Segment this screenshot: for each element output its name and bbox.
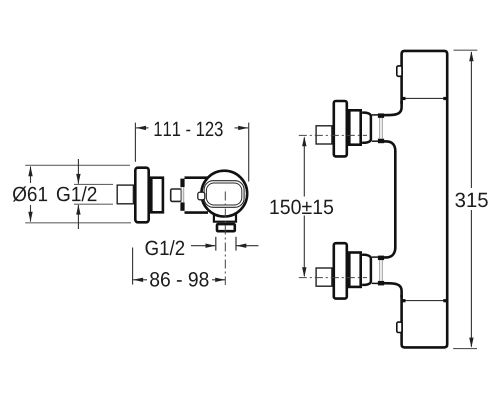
label 315 <box>455 193 487 208</box>
top nut caps <box>378 113 384 118</box>
dimension 150+-15 line and arrows <box>302 136 306 277</box>
dimension G1/2 supply extension lines <box>74 184 113 204</box>
label O61 <box>13 186 47 201</box>
dimension O61 arrows <box>28 166 32 222</box>
bottom nut caps <box>378 256 384 261</box>
wall flange O61 (side view) <box>135 168 148 223</box>
bottom handle notch <box>397 322 402 332</box>
dimension G1/2 outlet line, arrows and ticks <box>191 237 259 251</box>
handle knob circle (side view) <box>201 171 247 217</box>
dimension 111-123 extension lines <box>135 123 248 182</box>
dimension 315 line and arrows <box>469 51 473 347</box>
top union assembly <box>299 101 384 156</box>
dimension G1/2 supply arrows <box>76 159 80 229</box>
grip button tab (side view) <box>198 192 205 200</box>
label 150+-15 <box>270 200 333 215</box>
top handle notch <box>397 66 402 76</box>
supply stub G1/2 (side view) <box>117 185 133 204</box>
bottom supply stub <box>316 268 332 286</box>
bottom handle parting line with ticks <box>402 299 446 302</box>
bottom union assembly <box>299 243 384 298</box>
outlet centerline (side view) <box>224 192 226 286</box>
lever grip inner (side view) <box>206 183 241 205</box>
outlet nut G1/2 (side view) <box>217 224 235 231</box>
bottom wall flange <box>334 243 347 298</box>
dimension 315 extension lines <box>453 50 477 348</box>
bottom nut body <box>379 260 381 281</box>
bottom centerline <box>299 277 367 279</box>
body left edge between unions <box>381 141 395 257</box>
body outline with handles (front view) <box>402 51 448 348</box>
dimension 86-98 extension line <box>132 248 134 285</box>
label G1/2 supply <box>57 186 97 201</box>
top handle parting line with ticks <box>402 97 446 100</box>
junction ring caps (side view) <box>180 179 184 211</box>
dimension 111-123 line and arrows <box>136 126 248 130</box>
top wall flange <box>334 101 347 156</box>
label 111-123 <box>155 122 223 137</box>
body left edge curve from bottom union <box>381 283 402 297</box>
outlet neck (side view) <box>214 214 236 222</box>
body section A (side view) <box>151 178 163 213</box>
top adapter <box>349 110 360 144</box>
label 86-98 <box>150 272 208 287</box>
top cylinder lines <box>372 114 379 116</box>
bottom cylinder lines <box>372 256 379 258</box>
bottom adapter <box>349 253 360 287</box>
dimension O61 extension lines <box>25 165 131 223</box>
small tab between sections (side view) <box>171 189 182 201</box>
body section B (side view) <box>185 178 209 213</box>
top centerline <box>299 134 367 136</box>
top taper piece <box>362 113 371 143</box>
top supply stub <box>316 126 332 144</box>
lever grip outer (side view) <box>204 181 244 208</box>
top nut body <box>379 118 381 139</box>
body left edge curve to top union <box>381 101 402 115</box>
bottom taper piece <box>362 255 371 285</box>
dimension 86-98 line and arrows <box>133 278 225 282</box>
label G1/2 outlet <box>146 240 185 255</box>
